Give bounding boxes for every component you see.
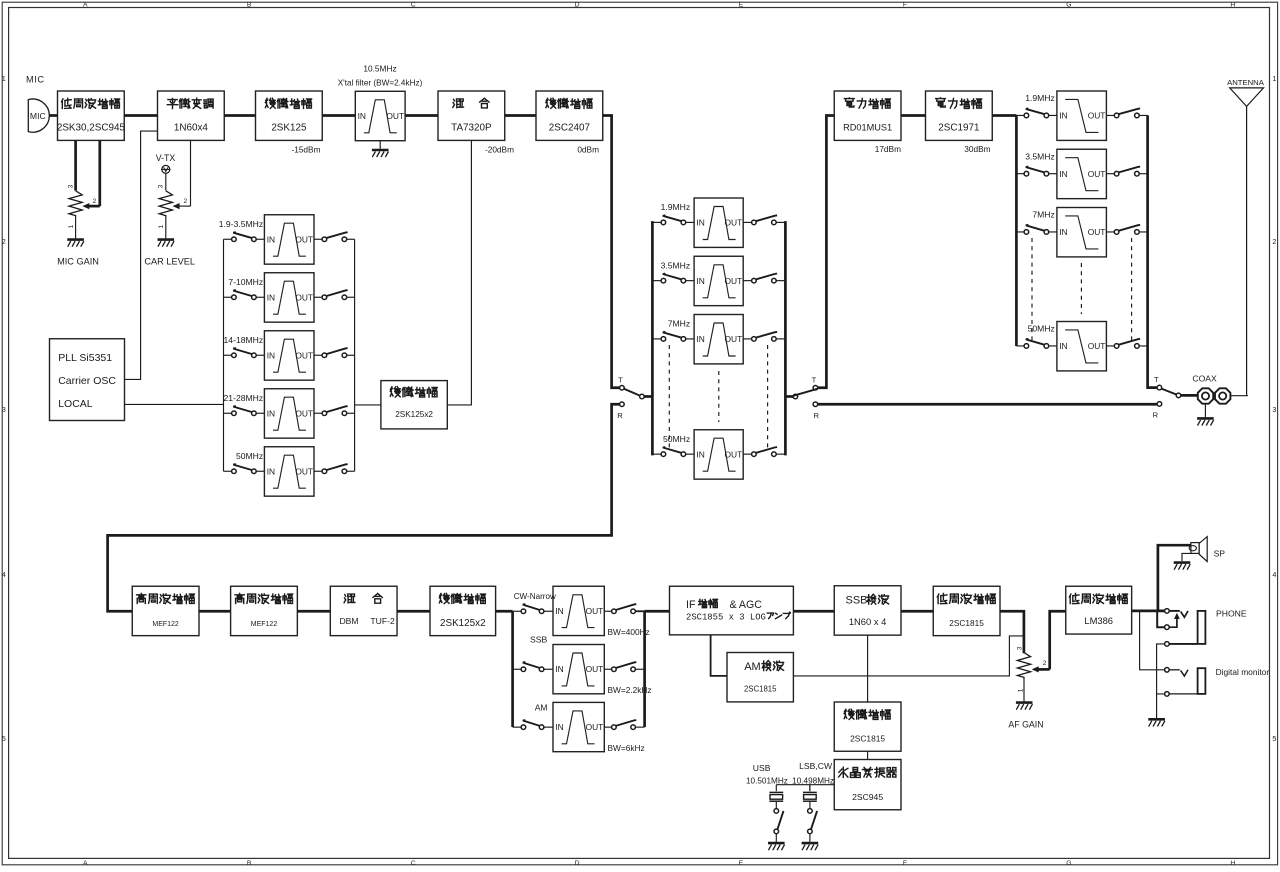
wire switch to bus	[776, 453, 785, 455]
wire bus to switch	[513, 668, 522, 670]
svg-text:OUT: OUT	[725, 276, 743, 286]
svg-text:T: T	[1154, 375, 1159, 384]
band-pass filter 1.9-3.5MHz	[264, 215, 314, 264]
wire switch to bus	[1139, 114, 1147, 116]
svg-text:MEF122: MEF122	[251, 621, 278, 628]
connector coax 2	[1215, 388, 1230, 403]
wire switch to filter	[686, 338, 694, 340]
block buffer 緩衝増幅 2SC1815 (BFO)	[834, 702, 901, 751]
svg-text:OUT: OUT	[586, 664, 604, 674]
svg-text:AM: AM	[744, 661, 761, 673]
switch T/R antenna (T)	[1157, 385, 1181, 397]
svg-text:AF GAIN: AF GAIN	[1008, 720, 1043, 730]
wire filter to switch	[604, 610, 611, 612]
wire bus to switch	[652, 453, 661, 455]
svg-text:Carrier OSC: Carrier OSC	[58, 375, 116, 387]
wire filter to switch	[1106, 231, 1114, 233]
block SSB detector SSB検波 1N60x4	[834, 586, 901, 635]
switch TX BPF 50MHz out	[322, 464, 348, 473]
svg-text:G: G	[1066, 2, 1071, 9]
switch LPF 7MHz in	[1024, 225, 1049, 234]
wiper arrow CAR LEVEL to balanced modulator	[177, 205, 190, 207]
wire common to mid bus right	[785, 395, 793, 398]
svg-text:IN: IN	[1059, 227, 1067, 237]
border column letters bottom	[83, 860, 1235, 867]
svg-text:A: A	[83, 2, 88, 9]
svg-text:7-10MHz: 7-10MHz	[228, 277, 263, 287]
svg-text:2: 2	[2, 237, 6, 246]
wire bus to switch	[652, 221, 661, 223]
wire RF amp2 to mixer DBM	[297, 610, 330, 613]
wire AF amp pin to MIC GAIN wiper	[98, 140, 101, 206]
wire switch to filter	[1049, 114, 1057, 116]
wire wiper to balanced modulator pin	[190, 140, 192, 206]
dashed continuation center	[718, 371, 720, 422]
svg-text:RD01MUS1: RD01MUS1	[843, 123, 892, 133]
svg-text:IN: IN	[555, 664, 563, 674]
wire filter to switch	[314, 238, 322, 240]
wire bus to switch	[1016, 345, 1024, 347]
block AF amp 低周波増幅 2SK30,2SC945	[57, 91, 126, 140]
wire switch to bus	[635, 726, 644, 728]
jack PHONE sleeve	[1165, 611, 1206, 646]
wire AM detector to AF-GAIN top	[793, 636, 1024, 676]
wire switch to bus	[776, 338, 785, 340]
switch TX BPF 1.9-3.5MHz out	[322, 232, 348, 241]
wire IF amp to SSB detector	[793, 610, 834, 613]
svg-text:LM386: LM386	[1084, 615, 1113, 626]
low-pass filter 3.5MHz	[1057, 149, 1107, 198]
svg-text:OUT: OUT	[295, 408, 313, 418]
wire switch to bus	[347, 470, 355, 472]
wire switch to filter	[256, 238, 264, 240]
svg-text:OUT: OUT	[1088, 169, 1106, 179]
svg-text:2: 2	[93, 198, 97, 205]
switch LPF 7MHz out	[1114, 225, 1140, 234]
band-pass filter 7-10MHz	[264, 273, 314, 322]
svg-text:BW=2.2kHz: BW=2.2kHz	[608, 685, 652, 695]
switch mid BPF 3.5MHz out	[752, 274, 777, 283]
node R circle (antenna switch)	[1157, 402, 1162, 407]
ground MIC GAIN	[67, 240, 84, 247]
wire IF amp to AM detector	[711, 635, 727, 676]
node R circle (left)	[620, 402, 625, 407]
low-pass filter 7MHz	[1057, 208, 1107, 257]
wire LPF bank right bus	[1148, 115, 1158, 387]
wire filter to switch	[743, 453, 751, 455]
svg-text:3: 3	[67, 184, 74, 188]
wire switch to bus	[347, 238, 355, 240]
svg-text:MIC: MIC	[30, 111, 46, 121]
svg-text:OUT: OUT	[295, 234, 313, 244]
svg-text:CW-Narrow: CW-Narrow	[514, 592, 556, 601]
wire switch to filter	[544, 610, 553, 612]
wire bus to switch	[224, 470, 232, 472]
svg-text:5: 5	[1272, 734, 1276, 743]
wire switch to filter	[256, 354, 264, 356]
wire MIC to AF amp	[49, 114, 57, 117]
svg-text:MEF122: MEF122	[152, 621, 179, 628]
svg-text:2SK125x2: 2SK125x2	[440, 618, 486, 629]
wire switch to filter	[544, 668, 553, 670]
low-pass filter 1.9MHz	[1057, 91, 1107, 140]
svg-text:2SC1855 x 3 LOG: 2SC1855 x 3 LOG	[686, 612, 766, 622]
wire 2SC2407 to TX T-switch (down)	[603, 116, 620, 388]
wire digital monitor tap	[1140, 611, 1165, 670]
switch IF filter CW-Narrow in	[521, 604, 544, 613]
jack Digital monitor sleeve	[1165, 668, 1206, 696]
svg-text:7MHz: 7MHz	[668, 319, 690, 329]
wire pot to ground	[165, 218, 167, 239]
wire pot to ground	[75, 218, 77, 239]
wire switch to bus	[1139, 173, 1147, 175]
svg-text:G: G	[1066, 860, 1071, 867]
wire crystal filter to mixer	[405, 114, 438, 117]
node R circle (right)	[813, 402, 818, 407]
wire switch to bus	[635, 610, 644, 612]
wire bus to switch	[224, 296, 232, 298]
block buffer 緩衝増幅 2SK125x2 (RX)	[430, 586, 496, 635]
svg-text:R: R	[617, 411, 623, 420]
svg-text:21-28MHz: 21-28MHz	[224, 393, 264, 403]
wire bus to switch	[513, 726, 522, 728]
switch LSB/CW crystal	[808, 809, 817, 834]
svg-text:4: 4	[2, 570, 6, 579]
band-pass filter 14-18MHz	[264, 331, 314, 380]
svg-text:ANTENNA: ANTENNA	[1227, 78, 1265, 87]
svg-text:BW=400Hz: BW=400Hz	[608, 627, 650, 637]
block AM detector AM検波 2SC1815	[727, 653, 793, 702]
wire switch to filter	[256, 470, 264, 472]
wire filter to switch	[314, 470, 322, 472]
wire switch to bus	[776, 280, 785, 282]
wire filter to switch	[604, 726, 611, 728]
svg-text:1: 1	[1272, 74, 1276, 83]
wire AF GAIN wiper to AF power amp	[1050, 611, 1066, 669]
svg-text:3: 3	[1272, 405, 1276, 414]
switch IF filter AM in	[521, 720, 544, 729]
wire 2SK125x2 buffer to mixer	[447, 140, 471, 405]
wire switch to ground	[809, 834, 811, 842]
switch mid BPF 7MHz out	[752, 332, 777, 341]
svg-text:MIC GAIN: MIC GAIN	[57, 256, 99, 266]
wire crystal branch	[809, 785, 811, 792]
switch mid BPF 50MHz out	[752, 447, 777, 456]
block AF power amp 低周波増幅 LM386	[1066, 586, 1132, 634]
wire AF power amp output	[1132, 610, 1165, 613]
svg-text:PHONE: PHONE	[1216, 608, 1247, 618]
svg-text:2: 2	[1043, 660, 1047, 667]
switch IF filter CW-Narrow out	[612, 604, 637, 613]
switch TX BPF 21-28MHz in	[232, 406, 257, 415]
switch mid BPF 1.9MHz out	[752, 215, 777, 224]
crystal filter 10.5MHz	[355, 91, 405, 140]
wire bus to IF amp	[645, 610, 670, 613]
block PA 電力増幅 2SC1971	[926, 91, 993, 140]
wire switch to filter	[256, 296, 264, 298]
wire filter to switch	[314, 296, 322, 298]
wire switch to filter	[1049, 231, 1057, 233]
svg-text:Digital monitor: Digital monitor	[1216, 667, 1270, 677]
jack PHONE tip contact	[1165, 609, 1188, 618]
wire TX filter bank right bus	[354, 239, 356, 471]
wire bus to switch	[224, 412, 232, 414]
ground jacks	[1148, 719, 1165, 726]
wire mid filter bus right	[784, 221, 787, 455]
wire bus to switch	[1016, 173, 1024, 175]
svg-text:OUT: OUT	[586, 722, 604, 732]
block crystal oscillator 水晶発振器 2SC945	[834, 760, 901, 810]
svg-text:T: T	[618, 375, 623, 384]
wire switch to bus	[1139, 345, 1147, 347]
band-pass filter 50MHz	[264, 447, 314, 496]
svg-text:R: R	[814, 411, 820, 420]
svg-text:SSB: SSB	[530, 635, 547, 645]
switch LPF 3.5MHz in	[1024, 167, 1049, 176]
svg-text:1.9MHz: 1.9MHz	[661, 202, 691, 212]
svg-text:IN: IN	[267, 292, 275, 302]
wire jack sleeves to ground	[1157, 644, 1165, 694]
svg-text:IN: IN	[696, 218, 704, 228]
wire bus to switch	[652, 338, 661, 340]
svg-text:IN: IN	[358, 111, 366, 121]
svg-text:IN: IN	[1059, 111, 1067, 121]
wire switch to bus	[776, 221, 785, 223]
crystal USB 10.501MHz	[769, 785, 783, 809]
switch mid BPF 7MHz in	[661, 332, 686, 341]
block buffer 緩衝増幅 2SK125x2	[381, 381, 447, 429]
resistor MIC GAIN	[69, 191, 82, 218]
svg-text:IN: IN	[267, 408, 275, 418]
wire switch to bus	[1139, 231, 1147, 233]
svg-text:BW=6kHz: BW=6kHz	[608, 743, 645, 753]
svg-text:T: T	[812, 375, 817, 384]
switch IF filter SSB in	[521, 662, 544, 671]
svg-text:1N60x4: 1N60x4	[174, 123, 209, 134]
wire Carrier OSC to balanced modulator	[125, 131, 158, 379]
svg-text:1: 1	[1017, 688, 1024, 692]
block buffer 緩衝増幅 2SC2407	[536, 91, 603, 140]
wire common to coax	[1181, 394, 1197, 397]
svg-text:COAX: COAX	[1192, 374, 1217, 384]
wire filter to switch	[1106, 114, 1114, 116]
svg-text:LOCAL: LOCAL	[58, 398, 93, 410]
switch T/R right (T)	[793, 385, 818, 398]
band-pass filter 50MHz	[694, 430, 743, 479]
svg-text:C: C	[411, 860, 416, 867]
label SSB検波 title	[846, 594, 889, 606]
svg-text:7MHz: 7MHz	[1032, 210, 1054, 220]
ground AF GAIN	[1016, 703, 1033, 710]
block PA 電力増幅 RD01MUS1	[834, 91, 901, 140]
wire filter to switch	[314, 354, 322, 356]
wire SSB detector to AF amp	[901, 610, 933, 613]
wire bus to switch	[1016, 231, 1024, 233]
svg-text:IN: IN	[1059, 341, 1067, 351]
svg-text:X'tal filter (BW=2.4kHz): X'tal filter (BW=2.4kHz)	[338, 79, 423, 88]
svg-text:1.9MHz: 1.9MHz	[1025, 93, 1055, 103]
svg-text:E: E	[739, 860, 744, 867]
ground	[372, 141, 389, 158]
IF filter AM BW=6kHz	[553, 702, 604, 751]
svg-text:D: D	[575, 860, 580, 867]
wire bus to switch	[224, 238, 232, 240]
svg-text:IN: IN	[696, 276, 704, 286]
svg-text:1N60 x 4: 1N60 x 4	[849, 616, 887, 627]
svg-text:2SC945: 2SC945	[852, 792, 883, 802]
wire coax to antenna feed	[1231, 395, 1248, 397]
wire switch to filter	[686, 453, 694, 455]
svg-text:IN: IN	[555, 722, 563, 732]
wire switch to bus	[347, 296, 355, 298]
wire mid filter bus left	[651, 221, 654, 455]
wiper arrow AF GAIN	[1036, 668, 1050, 671]
switch mid BPF 50MHz in	[661, 447, 686, 456]
wire filter to switch	[743, 280, 751, 282]
svg-text:IN: IN	[267, 466, 275, 476]
svg-text:2SC2407: 2SC2407	[549, 123, 590, 134]
dashed continuation left	[1031, 238, 1033, 340]
svg-text:2SC1971: 2SC1971	[938, 123, 980, 134]
switch TX BPF 50MHz in	[232, 464, 257, 473]
switch LPF 1.9MHz in	[1024, 108, 1049, 117]
block AF amp 低周波増幅 2SC1815	[933, 586, 1000, 635]
wire IF filter left bus	[511, 611, 514, 727]
svg-text:OUT: OUT	[295, 466, 313, 476]
band-pass filter 7MHz	[694, 315, 743, 364]
wire bus to switch	[513, 610, 522, 612]
svg-text:10.501MHz: 10.501MHz	[746, 776, 788, 785]
svg-text:V-TX: V-TX	[156, 153, 176, 163]
svg-text:OUT: OUT	[1088, 111, 1106, 121]
block buffer 緩衝増幅 2SK125	[256, 91, 323, 140]
wire TX filter bank left bus	[223, 239, 225, 471]
wire antenna feed vertical	[0, 0, 1, 1]
wire SSB detector to BFO buffer	[867, 635, 869, 702]
wire bus to switch	[652, 280, 661, 282]
svg-text:IN: IN	[696, 449, 704, 459]
svg-text:50MHz: 50MHz	[236, 451, 263, 461]
svg-text:SP: SP	[1214, 549, 1226, 559]
band-pass filter 1.9MHz	[694, 198, 743, 247]
svg-text:10.5MHz: 10.5MHz	[363, 64, 396, 74]
wire filter to switch	[1106, 173, 1114, 175]
svg-text:2SK30,2SC945: 2SK30,2SC945	[57, 123, 126, 134]
svg-text:1: 1	[158, 224, 165, 228]
ground crystal switch	[802, 843, 819, 850]
svg-text:2SK125: 2SK125	[271, 123, 307, 134]
svg-text:DBM: DBM	[339, 616, 358, 626]
svg-text:F: F	[903, 860, 907, 867]
wire switch to ground	[775, 834, 777, 842]
resistor CAR LEVEL	[159, 191, 172, 218]
svg-text:B: B	[247, 860, 252, 867]
wire DBM to buffer 2SK125x2	[397, 610, 430, 613]
wire crystal bus	[776, 784, 834, 786]
svg-text:5: 5	[2, 734, 6, 743]
switch TX BPF 7-10MHz out	[322, 290, 348, 299]
wire filter to switch	[743, 221, 751, 223]
wire PA2 to LPF bus	[992, 114, 1016, 117]
svg-text:2SK125x2: 2SK125x2	[395, 410, 433, 419]
block mixer 混合 TA7320P	[438, 91, 505, 140]
dashed continuation right	[767, 345, 769, 448]
svg-text:3: 3	[1016, 646, 1023, 650]
svg-text:10.498MHz: 10.498MHz	[792, 776, 834, 785]
wire PA1 to PA2	[901, 114, 926, 117]
wire bus to 2SK125x2 buffer	[355, 404, 381, 406]
power symbol V-TX	[161, 165, 171, 173]
svg-text:IN: IN	[696, 334, 704, 344]
switch mid BPF 1.9MHz in	[661, 215, 686, 224]
wire LPF bank left bus	[1015, 116, 1018, 346]
svg-text:R: R	[1153, 411, 1159, 420]
label AM検波 title	[744, 661, 783, 673]
svg-text:A: A	[83, 860, 88, 867]
block PLL Si5351 / Carrier OSC / LOCAL	[50, 339, 125, 421]
wire T right up to PA	[818, 116, 835, 388]
band-pass filter 3.5MHz	[694, 256, 743, 305]
wire balanced modulator to buffer	[224, 114, 255, 117]
wire switch to filter	[1049, 345, 1057, 347]
svg-text:2SC1815: 2SC1815	[744, 685, 777, 694]
IF filter SSB BW=2.2kHz	[553, 645, 604, 694]
switch mid BPF 3.5MHz in	[661, 274, 686, 283]
svg-text:OUT: OUT	[1088, 341, 1106, 351]
svg-text:14-18MHz: 14-18MHz	[224, 335, 264, 345]
wire mixer to buffer 2SC2407	[505, 114, 536, 117]
wire switch to bus	[347, 412, 355, 414]
svg-text:50MHz: 50MHz	[663, 434, 690, 444]
svg-text:OUT: OUT	[725, 218, 743, 228]
svg-text:TUF-2: TUF-2	[370, 616, 395, 626]
dashed continuation center	[1080, 263, 1082, 314]
switch TX BPF 14-18MHz in	[232, 348, 257, 357]
svg-text:2SC1815: 2SC1815	[949, 618, 984, 628]
svg-text:1.9-3.5MHz: 1.9-3.5MHz	[219, 219, 263, 229]
wire buffer to crystal oscillator	[867, 751, 869, 759]
block RF amp 高周波増幅 MEF122 (1)	[132, 586, 199, 635]
svg-text:3: 3	[2, 405, 6, 414]
wire buffer to crystal filter	[322, 114, 355, 117]
svg-text:3.5MHz: 3.5MHz	[1025, 151, 1055, 161]
svg-text:OUT: OUT	[725, 449, 743, 459]
svg-text:IN: IN	[555, 606, 563, 616]
svg-text:MIC: MIC	[26, 74, 45, 84]
wire switch to filter	[1049, 173, 1057, 175]
svg-text:CAR LEVEL: CAR LEVEL	[144, 256, 195, 266]
wire IF filter right bus	[643, 611, 646, 727]
svg-text:2: 2	[1272, 237, 1276, 246]
wire switch to filter	[544, 726, 553, 728]
wire R to RX line	[108, 404, 620, 611]
switch USB crystal	[774, 809, 784, 834]
border row numbers left	[2, 74, 6, 743]
wire switch to bus	[635, 668, 644, 670]
switch TX BPF 14-18MHz out	[322, 348, 348, 357]
svg-text:OUT: OUT	[725, 334, 743, 344]
switch LPF 1.9MHz out	[1114, 108, 1140, 117]
wire sleeve ground drop	[1156, 694, 1158, 718]
svg-text:2SC1815: 2SC1815	[850, 734, 885, 744]
wire RF amp1 to RF amp2	[199, 610, 231, 613]
svg-text:AM: AM	[535, 702, 548, 712]
svg-text:E: E	[739, 2, 744, 9]
dashed continuation right	[1131, 238, 1133, 340]
svg-text:-20dBm: -20dBm	[485, 145, 514, 155]
ground coax	[1197, 404, 1214, 426]
svg-text:TA7320P: TA7320P	[451, 123, 492, 134]
